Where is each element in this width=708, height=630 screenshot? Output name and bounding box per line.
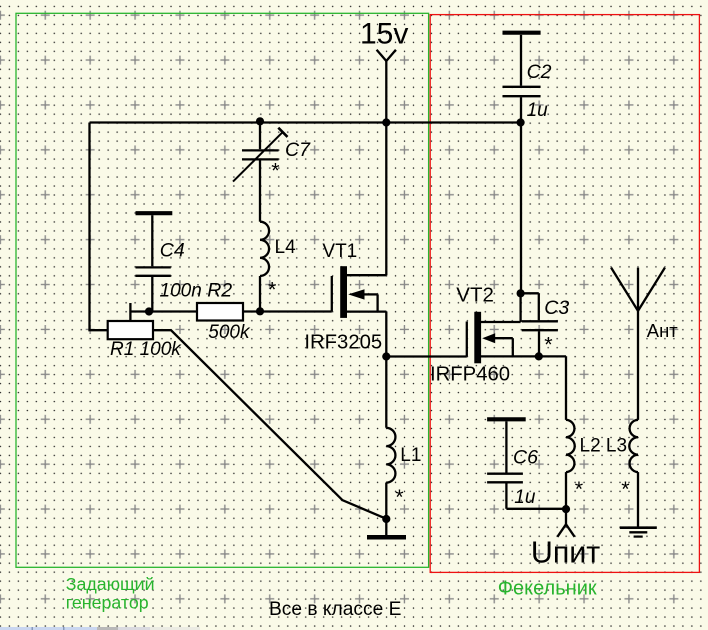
svg-text:*: *	[271, 159, 280, 183]
svg-text:*: *	[575, 477, 584, 501]
svg-text:Задающий: Задающий	[66, 574, 155, 594]
svg-text:1u: 1u	[527, 100, 549, 121]
svg-text:Ант: Ант	[647, 320, 678, 341]
svg-text:1u: 1u	[514, 487, 536, 508]
svg-text:*: *	[395, 485, 404, 509]
svg-text:100n: 100n	[160, 280, 202, 301]
svg-text:15v: 15v	[360, 18, 408, 51]
svg-text:C7: C7	[285, 139, 311, 161]
svg-text:Все в классе Е: Все в классе Е	[269, 599, 401, 620]
svg-text:Uпит: Uпит	[531, 535, 600, 569]
svg-text:L1: L1	[400, 445, 421, 466]
svg-text:C4: C4	[160, 240, 185, 262]
svg-text:*: *	[544, 333, 553, 357]
svg-text:C2: C2	[527, 61, 552, 83]
svg-text:генератор: генератор	[66, 593, 149, 613]
svg-text:*: *	[621, 477, 630, 501]
svg-text:L4: L4	[275, 237, 297, 258]
svg-text:VT2: VT2	[456, 284, 494, 307]
svg-text:R2: R2	[207, 279, 232, 301]
svg-text:Фекельник: Фекельник	[498, 577, 597, 599]
svg-text:C6: C6	[513, 447, 538, 469]
svg-text:IRFP460: IRFP460	[430, 364, 510, 386]
svg-text:*: *	[268, 278, 277, 302]
svg-text:VT1: VT1	[322, 241, 357, 262]
svg-text:C3: C3	[544, 297, 569, 319]
svg-text:IRF3205: IRF3205	[304, 331, 382, 353]
svg-text:R1 100k: R1 100k	[110, 339, 182, 360]
svg-text:500k: 500k	[208, 322, 251, 343]
svg-text:L2 L3: L2 L3	[580, 436, 628, 457]
